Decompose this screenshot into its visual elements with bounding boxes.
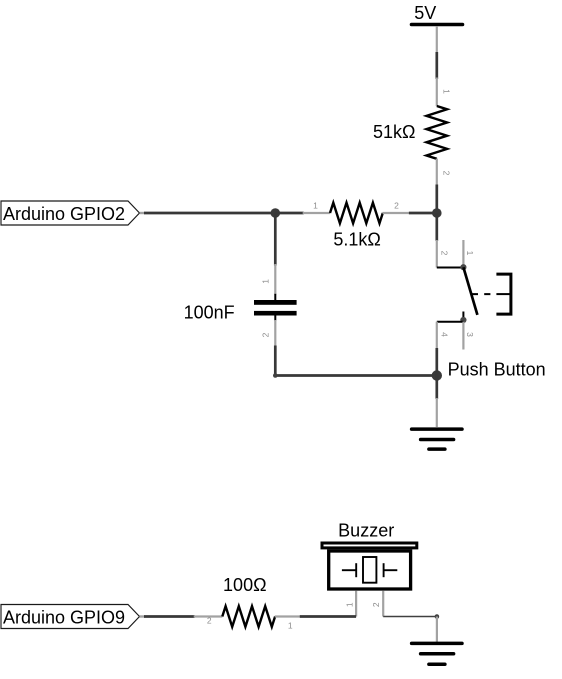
svg-text:3: 3 [465,332,475,337]
svg-text:2: 2 [371,602,381,607]
svg-text:Arduino GPIO9: Arduino GPIO9 [3,607,125,627]
svg-text:1: 1 [313,201,318,211]
svg-text:51kΩ: 51kΩ [373,122,415,142]
svg-text:4: 4 [439,332,449,337]
svg-text:2: 2 [394,201,399,211]
svg-text:2: 2 [261,332,271,337]
svg-text:1: 1 [465,251,475,256]
svg-text:2: 2 [441,171,451,176]
svg-text:Buzzer: Buzzer [338,520,394,540]
svg-text:1: 1 [261,279,271,284]
svg-text:2: 2 [207,616,212,626]
svg-text:5.1kΩ: 5.1kΩ [333,230,380,250]
svg-text:1: 1 [441,89,451,94]
svg-text:100Ω: 100Ω [223,575,267,595]
svg-text:2: 2 [439,251,449,256]
svg-text:Arduino GPIO2: Arduino GPIO2 [3,204,125,224]
svg-text:1: 1 [288,621,293,631]
svg-text:Push Button: Push Button [448,359,546,379]
svg-text:1: 1 [345,602,355,607]
svg-text:5V: 5V [414,3,436,23]
svg-text:100nF: 100nF [184,302,235,322]
